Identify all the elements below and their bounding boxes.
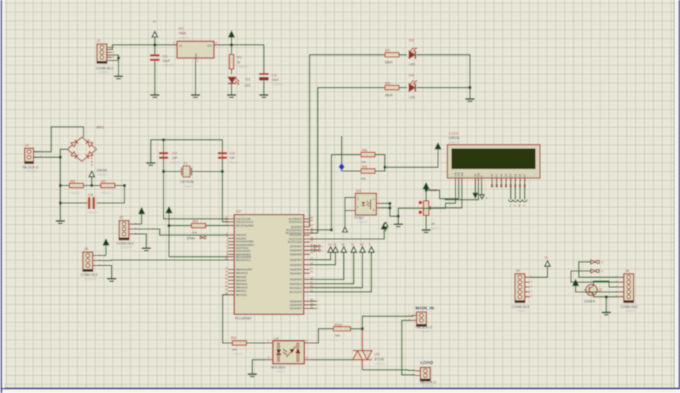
svg-text:<TEXT>: <TEXT> <box>70 191 81 195</box>
svg-text:C8: C8 <box>88 192 94 197</box>
svg-text:R6: R6 <box>362 147 368 152</box>
svg-text:560R: 560R <box>385 61 393 65</box>
svg-text:VEE: VEE <box>462 172 464 177</box>
svg-text:<TEXT>: <TEXT> <box>375 362 386 366</box>
svg-text:<TEXT>: <TEXT> <box>179 36 190 40</box>
svg-text:D1: D1 <box>246 77 252 82</box>
svg-text:RC2/CCP1: RC2/CCP1 <box>290 291 303 294</box>
svg-text:<TEXT>: <TEXT> <box>121 246 133 250</box>
svg-text:R3: R3 <box>385 80 391 85</box>
svg-text:R9: R9 <box>231 335 237 340</box>
svg-text:CRYSTAL: CRYSTAL <box>180 180 195 184</box>
svg-text:U5: U5 <box>375 352 381 357</box>
svg-text:<TEXT>: <TEXT> <box>272 83 284 87</box>
svg-text:RD5/PSP5: RD5/PSP5 <box>290 300 303 303</box>
svg-text:R1: R1 <box>237 55 243 60</box>
svg-text:<TEXT>: <TEXT> <box>98 71 110 75</box>
svg-text:C3: C3 <box>230 151 236 156</box>
svg-text:U1: U1 <box>179 26 185 31</box>
svg-text:U3: U3 <box>356 188 362 193</box>
svg-text:RB6/PGC: RB6/PGC <box>236 290 247 293</box>
svg-text:R5: R5 <box>70 178 76 183</box>
svg-text:<TEXT>: <TEXT> <box>26 170 38 174</box>
svg-text:R10: R10 <box>335 322 343 327</box>
svg-text:VSS: VSS <box>456 172 458 177</box>
svg-text:D6: D6 <box>341 242 345 246</box>
svg-text:LED: LED <box>409 96 416 100</box>
svg-text:<TEXT>: <TEXT> <box>97 173 108 177</box>
svg-text:RB0/AN12/INT: RB0/AN12/INT <box>236 269 253 272</box>
svg-text:5V: 5V <box>545 256 549 260</box>
svg-text:RB1/AN10: RB1/AN10 <box>236 272 248 275</box>
svg-text:RD0/PSP0: RD0/PSP0 <box>290 279 303 282</box>
svg-text:RD7/PSP7: RD7/PSP7 <box>290 308 303 311</box>
svg-text:RC0/T1OSO: RC0/T1OSO <box>288 241 302 244</box>
svg-text:D7: D7 <box>351 242 355 246</box>
svg-text:R7: R7 <box>101 178 107 183</box>
svg-text:C2: C2 <box>272 73 278 78</box>
svg-text:D4: D4 <box>409 73 415 78</box>
svg-text:RA7/OSC1: RA7/OSC1 <box>290 287 303 290</box>
svg-text:RB5/AN13: RB5/AN13 <box>236 287 248 290</box>
svg-text:7805: 7805 <box>179 32 187 36</box>
svg-text:LOAD: LOAD <box>420 360 433 365</box>
svg-text:D5: D5 <box>333 242 337 246</box>
svg-text:RD6/PSP6: RD6/PSP6 <box>290 249 303 252</box>
svg-text:<TEXT>: <TEXT> <box>183 185 194 189</box>
svg-text:<TEXT>: <TEXT> <box>163 64 175 68</box>
svg-text:RS: RS <box>475 173 477 177</box>
svg-text:<TEXT>: <TEXT> <box>449 140 460 144</box>
svg-text:RD5/PSP5: RD5/PSP5 <box>290 253 303 256</box>
svg-text:RD3/PSP3: RD3/PSP3 <box>290 264 303 267</box>
svg-text:RE2/AN7/CS: RE2/AN7/CS <box>236 259 251 262</box>
svg-text:360: 360 <box>335 334 340 338</box>
svg-text:RB7/PGD: RB7/PGD <box>236 294 247 297</box>
svg-text:VI: VI <box>179 44 182 48</box>
svg-text:<TEXT>: <TEXT> <box>357 220 368 224</box>
svg-text:<TEXT>: <TEXT> <box>232 352 243 356</box>
svg-text:X1: X1 <box>183 161 189 166</box>
svg-text:RD1/PSP1: RD1/PSP1 <box>290 272 303 275</box>
svg-text:U2: U2 <box>236 209 242 214</box>
svg-text:RS: RS <box>360 242 364 246</box>
svg-text:مفتاح: مفتاح <box>187 235 196 240</box>
svg-text:VO: VO <box>207 44 212 48</box>
svg-text:E: E <box>369 242 371 246</box>
svg-text:RD7/PSP7: RD7/PSP7 <box>290 245 303 248</box>
svg-text:<TEXT>: <TEXT> <box>429 227 440 231</box>
svg-text:<TEXT>: <TEXT> <box>101 191 112 195</box>
svg-text:<TEXT>: <TEXT> <box>516 309 527 313</box>
svg-text:RC6/TX/CK: RC6/TX/CK <box>289 221 302 224</box>
svg-text:560R: 560R <box>385 93 393 97</box>
svg-text:VDD: VDD <box>459 172 461 177</box>
svg-text:OSC2/CLKOUT: OSC2/CLKOUT <box>236 221 254 224</box>
svg-text:RB2/AN8: RB2/AN8 <box>236 276 247 279</box>
svg-text:1k: 1k <box>237 61 241 65</box>
svg-text:C: C <box>373 198 375 201</box>
svg-text:PIC16F887: PIC16F887 <box>235 317 252 321</box>
svg-text:R4: R4 <box>193 218 199 223</box>
svg-text:<TEXT>: <TEXT> <box>237 65 249 69</box>
svg-text:10k: 10k <box>361 176 366 180</box>
svg-text:MAIN_IN: MAIN_IN <box>416 305 435 310</box>
svg-text:C4: C4 <box>172 151 178 156</box>
svg-text:MCLR/Vpp/RE3: MCLR/Vpp/RE3 <box>236 225 254 228</box>
svg-text:<TEXT>: <TEXT> <box>87 211 98 215</box>
svg-text:<TEXT>: <TEXT> <box>85 277 97 281</box>
svg-text:<TEXT>: <TEXT> <box>625 309 636 313</box>
svg-text:RB3/AN9: RB3/AN9 <box>236 279 247 282</box>
svg-text:10uF: 10uF <box>272 78 279 82</box>
svg-text:LCD1: LCD1 <box>449 131 460 136</box>
svg-text:LED: LED <box>409 63 416 67</box>
svg-text:C1: C1 <box>163 54 169 59</box>
svg-text:10k: 10k <box>192 231 197 235</box>
svg-text:D4: D4 <box>328 242 332 246</box>
svg-text:LED: LED <box>245 84 252 88</box>
svg-text:RD4/PSP4: RD4/PSP4 <box>290 259 303 262</box>
svg-text:2N3904: 2N3904 <box>584 300 595 304</box>
svg-text:RD2/PSP2: RD2/PSP2 <box>290 269 303 272</box>
svg-text:<TEXT>: <TEXT> <box>170 161 181 165</box>
svg-text:10k: 10k <box>232 348 237 352</box>
svg-text:<TEXT>: <TEXT> <box>228 161 239 165</box>
svg-text:RB4/AN11: RB4/AN11 <box>236 283 248 286</box>
svg-text:BR1: BR1 <box>97 125 106 130</box>
svg-text:1nF: 1nF <box>172 156 178 160</box>
svg-text:<TEXT>: <TEXT> <box>275 369 286 373</box>
svg-text:1nF: 1nF <box>230 156 236 160</box>
svg-text:Q2: Q2 <box>598 288 603 292</box>
svg-text:5V: 5V <box>153 20 156 24</box>
svg-text:R2: R2 <box>385 48 391 53</box>
svg-text:D3: D3 <box>409 38 415 43</box>
svg-text:RC2/CCP1: RC2/CCP1 <box>290 234 303 237</box>
svg-text:<TEXT>: <TEXT> <box>419 330 430 334</box>
svg-text:RA6/OSC2: RA6/OSC2 <box>290 283 303 286</box>
svg-text:U4: U4 <box>274 335 280 340</box>
svg-text:10uF: 10uF <box>163 59 170 63</box>
svg-text:RD6/PSP6: RD6/PSP6 <box>290 304 303 307</box>
svg-text:R5: R5 <box>362 164 368 169</box>
